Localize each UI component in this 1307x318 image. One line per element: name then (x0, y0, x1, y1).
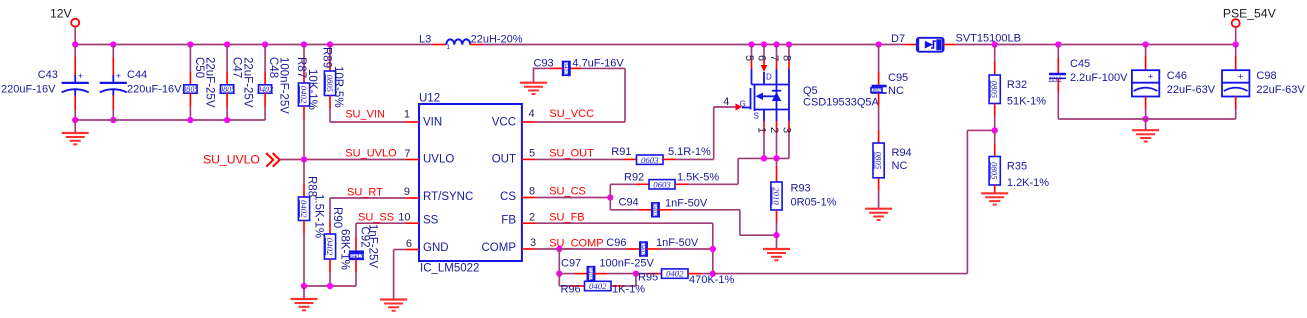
svg-text:C97: C97 (561, 258, 581, 270)
port PSE_54V (1232, 19, 1240, 27)
svg-text:FB: FB (501, 214, 516, 226)
svg-text:22uF-25V: 22uF-25V (204, 57, 216, 108)
capacitor C45 (1055, 41, 1061, 47)
transistor Q5 drain pins 5 6 7 8 (748, 41, 754, 47)
svg-text:SU_RT: SU_RT (347, 186, 383, 198)
wire SU_FB pin2 to feedback riser (535, 222, 713, 224)
svg-text:+: + (1148, 71, 1154, 82)
svg-text:4: 4 (723, 96, 729, 108)
svg-text:SU_VCC: SU_VCC (549, 108, 594, 120)
wire R92 to source join (688, 183, 738, 185)
svg-text:C93: C93 (534, 58, 554, 70)
svg-text:1nF-25V: 1nF-25V (367, 224, 379, 268)
svg-text:9: 9 (404, 186, 410, 198)
svg-text:C95: C95 (888, 72, 908, 84)
svg-text:COMP: COMP (482, 242, 517, 254)
svg-text:R90: R90 (331, 207, 343, 228)
capacitor C50 (187, 41, 193, 47)
wire SU_CS pin8 junction (535, 197, 610, 199)
svg-text:5: 5 (529, 148, 535, 160)
U12 pin 4 VCC stub (522, 121, 535, 123)
svg-text:C98: C98 (1256, 70, 1276, 82)
svg-text:3: 3 (781, 127, 793, 133)
svg-text:SS: SS (423, 214, 439, 226)
svg-text:R89: R89 (321, 47, 333, 68)
svg-text:R93: R93 (791, 183, 811, 195)
wire SU_OUT pin5 to R91 (535, 158, 624, 160)
wire output cap bottom rail (1058, 118, 1235, 120)
capacitor C43 (74, 45, 76, 58)
svg-text:D7: D7 (891, 33, 905, 45)
svg-text:5: 5 (743, 55, 755, 61)
capacitor C96 (559, 248, 627, 250)
wire bottom rail R88 R90 C92 (304, 285, 356, 287)
Q5 body diode (772, 92, 781, 101)
svg-text:R35: R35 (1007, 161, 1027, 173)
svg-text:10: 10 (398, 211, 410, 223)
wire CS to C94 branch (609, 198, 611, 210)
resistor R92 (636, 183, 649, 185)
wire SU_VIN net to pin 1 (330, 121, 406, 123)
wire GND pin to ground (394, 249, 406, 251)
U12 pin 3 COMP stub (522, 248, 535, 250)
resistor R91 (624, 158, 637, 160)
svg-text:8: 8 (781, 55, 793, 61)
svg-text:0805: 0805 (990, 162, 1000, 180)
resistor R35 (994, 130, 996, 143)
U12 pin 10 SS stub (406, 222, 419, 224)
svg-text:2: 2 (768, 127, 780, 133)
svg-text:C96: C96 (606, 237, 626, 249)
ground output caps (1145, 119, 1147, 130)
svg-text:1nF-50V: 1nF-50V (656, 237, 699, 249)
svg-text:C45: C45 (1070, 58, 1090, 70)
capacitor C92 (355, 223, 357, 237)
wire R91 to gate riser (676, 158, 714, 160)
svg-text:3: 3 (530, 237, 536, 249)
wire SU_VCC net pin4 to C93 branch (535, 121, 625, 123)
capacitor C47 (224, 41, 230, 47)
svg-text:C43: C43 (38, 69, 58, 81)
svg-text:4: 4 (529, 108, 535, 120)
ground R93 (776, 235, 778, 249)
resistor R94 (878, 130, 880, 143)
svg-text:S: S (754, 112, 759, 121)
resistor R88 (303, 160, 305, 185)
svg-text:1: 1 (404, 109, 410, 121)
wire 12V top bus left segment (75, 44, 432, 46)
svg-text:C48: C48 (267, 57, 279, 78)
svg-text:CS: CS (500, 191, 516, 203)
svg-text:D: D (766, 73, 772, 82)
svg-text:0805: 0805 (182, 85, 198, 94)
wire SU_UVLO net to pin 7 (280, 159, 406, 161)
svg-text:SVT15100LB: SVT15100LB (956, 33, 1021, 45)
wire CS to R92 branch (609, 184, 611, 197)
capacitor C93 (569, 67, 582, 69)
wire COMP down branch (558, 249, 560, 274)
svg-text:100nF-25V: 100nF-25V (278, 57, 290, 114)
wire C93 right riser (624, 68, 626, 122)
svg-text:R91: R91 (611, 146, 631, 158)
svg-text:0805: 0805 (874, 152, 884, 170)
ground U12 pin 6 (380, 298, 407, 300)
svg-text:7: 7 (768, 55, 780, 61)
svg-text:C94: C94 (619, 197, 639, 209)
port 12V (71, 19, 79, 27)
capacitor C44 (110, 41, 116, 47)
wire SU_COMP pin3 (535, 248, 559, 250)
svg-text:6: 6 (406, 238, 412, 250)
svg-text:R87: R87 (295, 57, 307, 78)
svg-text:100nF-25V: 100nF-25V (599, 258, 654, 270)
svg-text:R92: R92 (624, 172, 644, 184)
capacitor C48 (262, 41, 268, 47)
svg-text:0R05-1%: 0R05-1% (791, 197, 837, 209)
capacitor C95 (875, 41, 881, 47)
svg-text:0402: 0402 (299, 200, 309, 218)
wire SU_RT net to pin 9 (330, 197, 406, 199)
svg-text:SU_SS: SU_SS (358, 211, 394, 223)
svg-text:GND: GND (423, 242, 449, 254)
resistor R90 (329, 198, 331, 221)
svg-text:+: + (78, 71, 83, 81)
wire C93 to ground (533, 67, 535, 82)
U12 pin 9 RT stub (406, 197, 419, 199)
resistor R32 (992, 41, 998, 47)
svg-text:1K-1%: 1K-1% (612, 284, 645, 296)
svg-text:22uF-25V: 22uF-25V (242, 57, 254, 108)
svg-text:C47: C47 (231, 57, 243, 78)
svg-text:4.7uF-16V: 4.7uF-16V (572, 58, 624, 70)
svg-text:5.1R-1%: 5.1R-1% (668, 146, 711, 158)
resistor R89 (327, 41, 333, 47)
transistor Q5 source pins 1 2 3 (763, 110, 765, 122)
U12 pin 1 VIN stub (406, 121, 419, 123)
svg-text:CSD19533Q5A: CSD19533Q5A (803, 96, 879, 108)
svg-text:51K-1%: 51K-1% (1007, 96, 1046, 108)
svg-text:22uH-20%: 22uH-20% (471, 34, 523, 46)
svg-text:0603: 0603 (641, 155, 659, 165)
capacitor C94 (639, 209, 652, 211)
svg-text:220uF-16V: 220uF-16V (1, 84, 56, 96)
svg-text:1: 1 (447, 44, 451, 51)
resistor R93 (776, 158, 778, 166)
svg-text:2: 2 (529, 211, 535, 223)
U12 pin 8 CS stub (522, 197, 535, 199)
svg-text:G: G (740, 100, 746, 109)
svg-text:SU_FB: SU_FB (549, 211, 584, 223)
IC U12 LM5022 box (419, 104, 522, 261)
svg-text:0402: 0402 (666, 269, 684, 279)
svg-text:UVLO: UVLO (423, 154, 454, 166)
svg-text:0805: 0805 (990, 80, 1000, 98)
svg-text:7: 7 (404, 148, 410, 160)
svg-text:+: + (116, 71, 121, 81)
svg-text:IC_LM5022: IC_LM5022 (420, 263, 479, 275)
capacitor C97 (559, 273, 574, 275)
svg-text:R95: R95 (638, 272, 658, 284)
svg-text:0805: 0805 (871, 88, 883, 94)
wire SU_SS net to pin 10 (356, 222, 406, 224)
port SU_UVLO chevron (266, 153, 280, 167)
capacitor C98 (1235, 45, 1237, 57)
wire feedback long run to divider (713, 273, 968, 275)
resistor R95 (636, 273, 649, 275)
svg-text:PSE_54V: PSE_54V (1223, 7, 1277, 21)
svg-text:NC: NC (892, 160, 908, 172)
U12 pin 5 OUT stub (522, 158, 535, 160)
transistor Q5 body (752, 84, 790, 86)
ground input caps (74, 120, 76, 133)
svg-text:12V: 12V (50, 7, 73, 21)
svg-text:VIN: VIN (423, 116, 442, 128)
U12 pin 7 UVLO stub (406, 159, 419, 161)
wire source join (738, 157, 789, 159)
svg-text:0402: 0402 (257, 85, 273, 94)
svg-text:6: 6 (756, 55, 768, 61)
svg-text:U12: U12 (419, 93, 440, 105)
svg-text:10K-1%: 10K-1% (306, 69, 318, 110)
svg-text:68K-1%: 68K-1% (339, 229, 351, 270)
svg-text:SU_UVLO: SU_UVLO (345, 148, 397, 160)
svg-text:1nF-50V: 1nF-50V (665, 198, 708, 210)
svg-text:0402: 0402 (325, 238, 335, 256)
resistor R87 (301, 41, 307, 47)
wire bottom rail input caps (75, 119, 265, 121)
wire FB riser vertical (712, 223, 714, 273)
svg-text:OUT: OUT (492, 154, 516, 166)
svg-text:0805: 0805 (219, 85, 235, 94)
diode D7 (905, 44, 917, 46)
resistor R96 (559, 285, 571, 287)
svg-text:2010: 2010 (771, 187, 781, 205)
U12 pin 2 FB stub (522, 222, 535, 224)
svg-text:R96: R96 (561, 284, 581, 296)
svg-text:1.5K-1%: 1.5K-1% (313, 194, 325, 238)
U12 pin 6 GND stub (406, 249, 419, 251)
svg-text:2.2uF-100V: 2.2uF-100V (1070, 72, 1128, 84)
svg-text:1.5K-5%: 1.5K-5% (677, 172, 719, 184)
svg-text:C44: C44 (127, 69, 147, 81)
inductor L3 (432, 44, 446, 46)
svg-text:10R-5%: 10R-5% (332, 66, 344, 108)
svg-text:RT/SYNC: RT/SYNC (423, 191, 473, 203)
ground R88 rail (303, 286, 305, 299)
svg-text:NC: NC (888, 85, 904, 97)
svg-text:R94: R94 (892, 147, 912, 159)
svg-text:22uF-63V: 22uF-63V (1256, 84, 1305, 96)
svg-text:+: + (1238, 71, 1244, 82)
svg-text:1210: 1210 (1049, 75, 1063, 82)
svg-text:1.2K-1%: 1.2K-1% (1007, 177, 1049, 189)
svg-text:SU_UVLO: SU_UVLO (203, 152, 260, 166)
capacitor C46 (1142, 41, 1148, 47)
svg-text:C50: C50 (193, 57, 205, 78)
wire top bus output segment (D7 to PSE_54V) (956, 44, 1235, 46)
svg-text:Q5: Q5 (803, 85, 818, 97)
svg-text:SU_OUT: SU_OUT (549, 148, 594, 160)
wire top bus switch-node segment (L3 to D7) (483, 44, 905, 46)
svg-text:220uF-16V: 220uF-16V (127, 84, 182, 96)
svg-text:1: 1 (756, 127, 768, 133)
svg-text:L3: L3 (419, 34, 431, 46)
svg-text:SU_CS: SU_CS (549, 186, 586, 198)
svg-text:22uF-63V: 22uF-63V (1167, 84, 1216, 96)
ground R94 (865, 208, 892, 210)
ground C93 (520, 82, 547, 84)
ground R35 (981, 192, 1008, 194)
svg-text:R32: R32 (1007, 79, 1027, 91)
Q5 gate pin 4 arrow (736, 103, 743, 110)
wire C94 to R93 ground node (672, 209, 740, 211)
svg-text:C46: C46 (1167, 70, 1187, 82)
svg-text:8: 8 (529, 186, 535, 198)
svg-text:VCC: VCC (492, 116, 516, 128)
svg-text:0402: 0402 (589, 281, 607, 291)
svg-text:SU_VIN: SU_VIN (345, 109, 385, 121)
svg-text:0603: 0603 (653, 179, 671, 189)
